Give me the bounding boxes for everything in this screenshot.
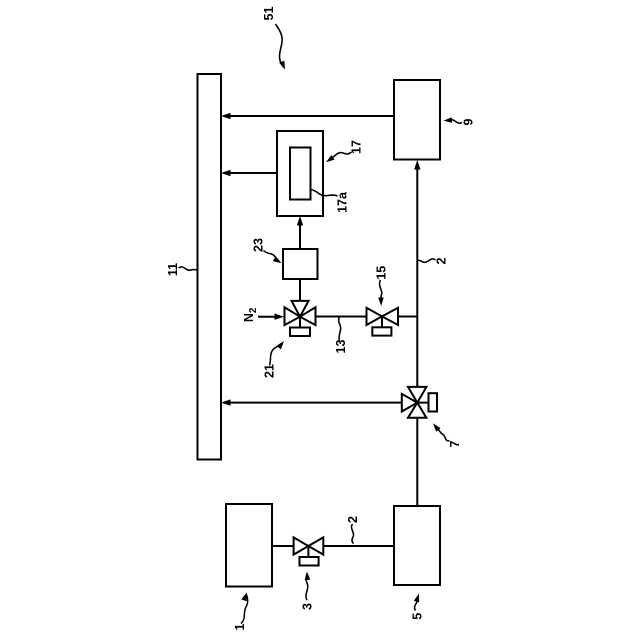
svg-text:23: 23 — [252, 238, 266, 252]
valve 3 left triangle — [294, 537, 309, 554]
inner box 17a — [290, 148, 311, 200]
leader arrowhead 7 — [433, 423, 441, 431]
svg-text:51: 51 — [262, 7, 276, 21]
box 5 — [394, 506, 440, 585]
chamber 11 (tall rectangle) — [198, 74, 222, 460]
wire box1 to valve3 — [272, 545, 294, 547]
valve 7 bottom triangle — [408, 403, 426, 418]
arrowhead into chamber11 top — [221, 113, 231, 119]
arrowhead into box9 — [414, 160, 420, 170]
wire box17 to chamber11 — [229, 172, 277, 174]
arrowhead into chamber11 middle — [221, 170, 231, 176]
valve 21 right triangle — [300, 307, 316, 325]
leader arrowhead 15 — [378, 297, 384, 306]
leader 2 (vertical line) — [418, 259, 436, 262]
wire line2 junction to valve7 — [416, 317, 418, 388]
leader arrowhead 21 — [277, 341, 285, 349]
valve 7 actuator box — [429, 393, 438, 411]
valve 21 actuator box — [290, 328, 310, 337]
wire valve7 to box5 — [416, 417, 418, 506]
valve 15 right triangle — [382, 308, 398, 325]
valve 3 actuator box — [300, 557, 319, 566]
valve 7 (three-way) top triangle — [408, 387, 426, 403]
valve 21 (three-way) left triangle — [285, 307, 301, 325]
arrowhead into box17 — [297, 216, 303, 226]
box 17 — [277, 131, 323, 216]
wire box9 to chamber11 — [229, 115, 394, 117]
leader 21 — [270, 344, 282, 366]
leader 1 — [241, 595, 248, 624]
svg-text:3: 3 — [300, 603, 314, 610]
valve 15 actuator stem — [381, 316, 383, 327]
leader arrowhead 5 — [414, 594, 419, 603]
leader 23 — [264, 251, 280, 263]
wire valve7 to chamber11 — [229, 402, 402, 404]
leader arrowhead 9 — [444, 117, 453, 123]
leader 17 — [329, 152, 352, 161]
svg-text:2: 2 — [435, 257, 449, 264]
wire valve15 to line2 — [397, 316, 417, 318]
wire 2 valve3 to box5 — [323, 545, 394, 547]
leader arrowhead 51 — [279, 61, 285, 70]
svg-text:2: 2 — [346, 516, 360, 523]
svg-text:7: 7 — [448, 440, 462, 447]
valve 3 right triangle — [308, 537, 323, 554]
leader 17a — [311, 190, 338, 197]
valve 7 left triangle — [402, 394, 418, 412]
leader 7 — [435, 426, 450, 441]
box 9 — [394, 80, 440, 160]
leader 11 — [179, 267, 198, 270]
leader 9 — [446, 120, 462, 124]
valve 7 actuator stem — [417, 402, 428, 404]
valve 15 left triangle — [367, 308, 383, 325]
leader 13 — [339, 317, 341, 341]
leader arrowhead 3 — [305, 572, 311, 581]
leader arrowhead 1 — [241, 592, 247, 601]
svg-text:5: 5 — [410, 613, 424, 620]
wire N2 inlet — [258, 316, 276, 318]
leader 5 — [415, 596, 419, 611]
leader arrowhead 23 — [273, 256, 282, 263]
valve 21 actuator stem — [299, 317, 301, 328]
svg-text:17: 17 — [350, 140, 364, 154]
wire line2 up to box9 — [416, 168, 418, 317]
leader 15 — [379, 280, 381, 304]
svg-text:9: 9 — [462, 118, 476, 125]
svg-text:21: 21 — [263, 364, 277, 378]
leader 2 (bottom line) — [351, 524, 353, 544]
svg-text:17a: 17a — [336, 191, 350, 213]
arrowhead into chamber11 bottom — [221, 399, 231, 405]
wire box23 to valve21 — [299, 279, 301, 302]
leader 51 — [276, 24, 284, 68]
box 23 — [283, 249, 318, 279]
svg-text:15: 15 — [374, 266, 388, 280]
valve 21 top triangle — [292, 301, 309, 317]
svg-text:11: 11 — [166, 263, 180, 276]
leader arrowhead 17 — [326, 155, 335, 162]
svg-text:1: 1 — [233, 623, 247, 630]
valve 3 actuator stem — [307, 546, 309, 557]
arrowhead N2 into valve21 — [275, 314, 285, 320]
wire 13 valve21 to valve15 — [315, 316, 368, 318]
leader 3 — [306, 574, 308, 600]
wire box23 to box17 — [299, 224, 301, 249]
box 1 — [226, 504, 272, 587]
svg-text:13: 13 — [334, 340, 348, 354]
valve 15 actuator box — [372, 327, 391, 335]
